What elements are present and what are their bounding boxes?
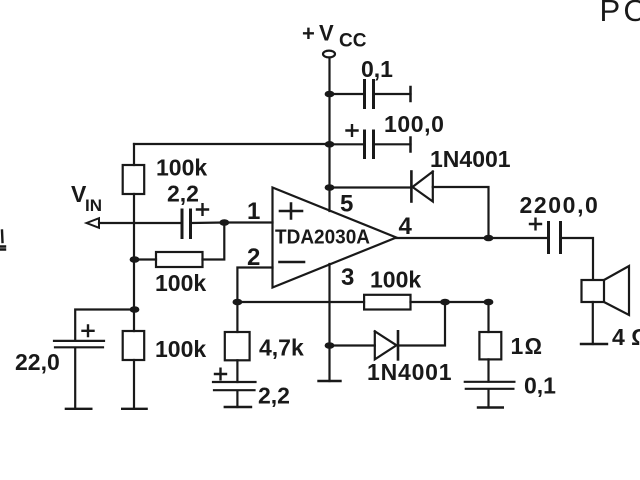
junction left-vertical / 22,0 branch <box>130 306 140 313</box>
svg-text:100k: 100k <box>155 336 206 362</box>
svg-text:2200,0: 2200,0 <box>520 192 600 218</box>
junction output node <box>484 235 494 242</box>
junction Vcc/100,0 <box>325 141 335 148</box>
svg-text:CC: CC <box>339 31 367 52</box>
plus sign 22,0 <box>83 326 94 337</box>
node +Vcc terminal <box>323 51 335 58</box>
svg-text:0,1: 0,1 <box>524 373 556 399</box>
terminal stub 0,1 <box>409 87 412 101</box>
ground 22,0 <box>66 408 91 410</box>
resistor R 100k (horizontal bias) <box>156 252 203 267</box>
svg-text:1N4001: 1N4001 <box>367 359 452 385</box>
svg-text:1: 1 <box>247 198 260 225</box>
speaker LS <box>582 280 605 302</box>
svg-text:+: + <box>302 21 315 46</box>
svg-text:100,0: 100,0 <box>384 111 445 137</box>
svg-text:0,1: 0,1 <box>361 56 393 82</box>
wire 100,0 cap branch <box>330 143 411 145</box>
resistor R 4,7k <box>236 302 238 332</box>
ground 0,1 <box>478 406 503 408</box>
junction pin1 node <box>219 219 229 226</box>
svg-text:4 Ω: 4 Ω <box>612 324 640 350</box>
ground 2,2 <box>225 406 251 408</box>
svg-text:100k: 100k <box>155 270 206 296</box>
diode D1 1N4001 (top) <box>410 172 413 202</box>
resistor R 100k (feedback) <box>364 295 410 310</box>
op-amp U1 TDA2030A <box>273 188 397 288</box>
diode D2 1N4001 (bottom) <box>375 331 397 359</box>
label Vin <box>71 181 102 215</box>
terminal stub 100,0 <box>409 138 412 152</box>
stray glyph left edge <box>0 231 5 250</box>
capacitor C 100,0 <box>365 131 374 158</box>
svg-text:1N4001: 1N4001 <box>430 146 511 172</box>
plus sign 2,2 input <box>197 204 208 215</box>
wire cap to speaker <box>562 238 593 280</box>
plus sign 2,2 bottom <box>215 369 226 380</box>
junction feedback/output-branch <box>484 299 494 306</box>
svg-text:5: 5 <box>340 191 353 218</box>
wire top diode to output node <box>433 187 489 238</box>
capacitor C 0,1 (zobel) <box>465 382 515 389</box>
wire pin3 node to bottom diode <box>330 344 375 346</box>
ground 100k bottom-left <box>122 408 146 410</box>
wire 4,7k to cap <box>236 360 238 382</box>
resistor R 1 Ohm <box>487 302 489 332</box>
wire output <box>396 237 548 239</box>
wire left bias vertical top <box>133 144 135 165</box>
svg-text:PC: PC <box>600 0 640 28</box>
junction pin3/diode <box>325 342 335 349</box>
svg-text:1Ω: 1Ω <box>511 333 544 359</box>
wire pin2 <box>237 268 272 303</box>
wire input to cap <box>99 222 180 224</box>
wire bottom diode to feedback junction <box>398 302 445 346</box>
wire Vcc vertical <box>328 58 330 211</box>
svg-text:V: V <box>319 21 334 46</box>
svg-text:100k: 100k <box>370 267 421 293</box>
junction pin5/Vcc <box>325 184 335 191</box>
op-amp minus input mark <box>280 261 305 264</box>
wire to 22,0 cap <box>75 310 134 341</box>
wire top bias from left 100k to Vcc line <box>134 143 330 145</box>
svg-text:100k: 100k <box>156 155 207 181</box>
capacitor C 2200,0 (output) <box>549 223 561 253</box>
junction Vcc/0,1 <box>325 91 335 98</box>
wire pin3 vertical <box>328 264 330 381</box>
capacitor C 2,2 (input) <box>182 210 191 238</box>
wire resistor to left vertical <box>135 258 157 260</box>
capacitor C 0,1 (decoupling) <box>365 81 374 108</box>
wire 22,0 to ground <box>74 348 76 409</box>
plus sign 100,0 <box>347 125 358 136</box>
op-amp plus input mark <box>280 204 302 219</box>
wire pin1 node down <box>203 223 225 260</box>
wire cap to pin1 node <box>192 221 273 224</box>
ground speaker <box>581 343 607 345</box>
svg-text:4,7k: 4,7k <box>259 335 304 361</box>
svg-text:3: 3 <box>341 264 354 291</box>
resistor R 100k (bottom-left) <box>123 331 145 360</box>
junction feedback/diode <box>440 299 450 306</box>
junction left-vertical / 100k <box>130 256 140 263</box>
wire feedback row <box>237 301 488 303</box>
svg-text:TDA2030A: TDA2030A <box>275 227 370 249</box>
plus sign 2200,0 <box>530 219 541 230</box>
capacitor C 22,0 <box>54 341 104 347</box>
capacitor C 2,2 (bottom) <box>213 382 256 390</box>
wire 0,1 to ground <box>487 390 489 408</box>
svg-text:2,2: 2,2 <box>167 181 199 207</box>
wire 0,1 cap branch <box>330 93 411 95</box>
svg-text:22,0: 22,0 <box>15 349 60 375</box>
wire 100k to ground <box>133 360 135 409</box>
svg-text:4: 4 <box>399 213 413 240</box>
ground pin3 <box>319 380 341 382</box>
wire left bias vertical down <box>133 194 135 331</box>
svg-text:IN: IN <box>85 196 102 215</box>
node Vin terminal <box>87 218 100 228</box>
wire speaker to ground <box>592 302 594 344</box>
junction pin2 node <box>233 299 243 306</box>
svg-text:2,2: 2,2 <box>258 383 290 409</box>
wire 2,2 to ground <box>236 391 238 407</box>
wire 1 Ohm to cap <box>487 359 489 381</box>
resistor R 100k (top-left) <box>123 165 145 194</box>
wire pin5 node to top diode <box>330 186 411 188</box>
label +Vcc <box>302 21 367 52</box>
